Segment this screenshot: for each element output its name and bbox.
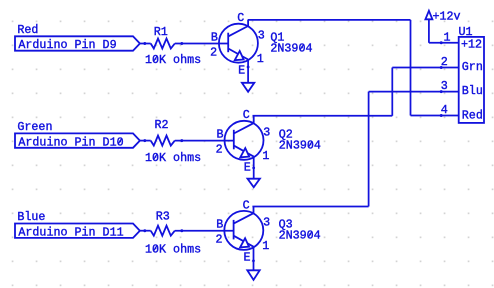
wire emitter Q1 to ground xyxy=(247,60,249,83)
svg-text:2: 2 xyxy=(215,233,222,247)
Q3 emitter stroke xyxy=(234,236,254,247)
wire xyxy=(140,230,151,232)
U1 box xyxy=(459,37,484,123)
Q1 collector stroke xyxy=(228,20,248,37)
wire xyxy=(140,43,151,45)
wire emitter Q3 to ground xyxy=(253,247,255,271)
svg-text:Arduino Pin D11: Arduino Pin D11 xyxy=(18,225,123,239)
U1 pin 1 dot xyxy=(440,41,443,44)
svg-text:R3: R3 xyxy=(156,209,170,223)
junction dot xyxy=(180,42,183,45)
ground symbol (Q3 emitter) xyxy=(247,270,259,280)
transistor Q1 2N3904 NPN xyxy=(210,11,265,77)
svg-text:E: E xyxy=(244,251,251,265)
ground symbol (Q2 emitter) xyxy=(248,179,260,188)
svg-text:1: 1 xyxy=(257,52,264,66)
svg-text:2: 2 xyxy=(210,45,217,59)
transistor Q2 2N3904 NPN xyxy=(216,108,271,174)
resistor R3 xyxy=(151,209,175,235)
connector U1 xyxy=(440,25,484,123)
Q1 emitter stroke xyxy=(228,49,248,60)
svg-text:Grn: Grn xyxy=(462,60,483,74)
wire Blu bus to U1 pin 3 xyxy=(369,91,459,93)
Q3 emitter arrowhead xyxy=(240,238,249,247)
svg-text:Arduino Pin D10: Arduino Pin D10 xyxy=(18,135,123,149)
svg-text:Blue: Blue xyxy=(17,210,45,224)
Q3 body circle xyxy=(224,211,263,250)
junction dot xyxy=(252,259,255,262)
junction dot xyxy=(143,139,146,142)
svg-text:2: 2 xyxy=(216,143,223,157)
svg-text:2N3904: 2N3904 xyxy=(270,41,312,55)
svg-text:+12: +12 xyxy=(461,37,482,51)
junction dot xyxy=(143,42,146,45)
svg-text:Arduino Pin D9: Arduino Pin D9 xyxy=(18,38,116,52)
svg-text:C: C xyxy=(243,108,250,122)
Q1 body circle xyxy=(219,24,258,63)
wire xyxy=(140,140,151,142)
Q1 emitter arrowhead xyxy=(235,51,244,60)
svg-text:B: B xyxy=(211,30,218,44)
junction dot xyxy=(247,66,250,69)
power symbol +12v xyxy=(425,9,460,43)
junction dot xyxy=(252,167,255,170)
svg-text:E: E xyxy=(238,63,245,77)
port flag Arduino Pin D11 xyxy=(15,224,140,240)
svg-text:1: 1 xyxy=(262,149,269,163)
svg-text:Red: Red xyxy=(17,23,38,37)
svg-text:R1: R1 xyxy=(154,25,168,39)
svg-text:2N3904: 2N3904 xyxy=(279,139,321,153)
svg-text:1: 1 xyxy=(443,31,450,45)
junction dot xyxy=(180,139,183,142)
svg-text:+12v: +12v xyxy=(433,9,461,23)
Q2 body circle xyxy=(225,121,264,160)
svg-text:1: 1 xyxy=(262,239,269,253)
wire Red bus to U1 pin 4 xyxy=(411,115,459,117)
port flag Arduino Pin D9 xyxy=(15,36,140,52)
svg-text:B: B xyxy=(216,128,223,142)
svg-text:Blu: Blu xyxy=(462,84,483,98)
svg-text:Green: Green xyxy=(17,120,52,134)
svg-text:3: 3 xyxy=(258,29,265,43)
wire xyxy=(175,140,234,142)
svg-text:3: 3 xyxy=(263,126,270,140)
junction dot xyxy=(180,229,183,232)
junction dot xyxy=(143,229,146,232)
U1 pin 3 dot xyxy=(440,90,443,93)
wire +12v to U1 pin 1 xyxy=(429,42,459,44)
svg-text:Red: Red xyxy=(462,108,483,122)
resistor R2 xyxy=(151,118,175,146)
wire Blu bus vertical xyxy=(368,92,370,207)
resistor R1 xyxy=(151,25,175,49)
svg-text:R2: R2 xyxy=(155,118,169,132)
Q1 base bar xyxy=(227,33,229,53)
Q2 collector stroke xyxy=(234,116,254,134)
wire xyxy=(175,230,233,232)
Q2 emitter arrowhead xyxy=(240,148,249,157)
Q3 collector stroke xyxy=(234,207,254,224)
svg-text:10K ohms: 10K ohms xyxy=(145,242,201,256)
wire emitter Q2 to ground xyxy=(253,157,255,179)
wire Red bus vertical xyxy=(410,20,412,116)
wire xyxy=(175,43,228,45)
wire Q3 collector to Blu bus (net Blue) xyxy=(252,206,368,208)
U1 pin 4 dot xyxy=(440,114,443,117)
svg-text:2N3904: 2N3904 xyxy=(279,229,321,243)
svg-text:C: C xyxy=(243,198,250,212)
svg-text:E: E xyxy=(244,160,251,174)
wire Q2 collector to Grn bus (net Green) xyxy=(253,115,393,117)
Q2 base bar xyxy=(233,130,235,150)
svg-text:10K ohms: 10K ohms xyxy=(145,151,201,165)
Q3 base bar xyxy=(233,220,235,240)
ground symbol (Q1 emitter) xyxy=(242,83,254,92)
U1 pin 2 dot xyxy=(440,66,443,69)
svg-text:10K ohms: 10K ohms xyxy=(145,53,201,67)
svg-text:C: C xyxy=(237,11,244,25)
Q2 emitter stroke xyxy=(234,146,254,157)
svg-text:B: B xyxy=(216,218,223,232)
svg-text:3: 3 xyxy=(263,216,270,230)
wire Q1 collector to Red bus (net Red) xyxy=(248,19,411,21)
transistor Q3 2N3904 NPN xyxy=(215,198,270,264)
wire Grn bus vertical xyxy=(391,68,393,116)
wire Grn bus to U1 pin 2 xyxy=(392,67,458,69)
port flag Arduino Pin D10 xyxy=(15,133,140,149)
